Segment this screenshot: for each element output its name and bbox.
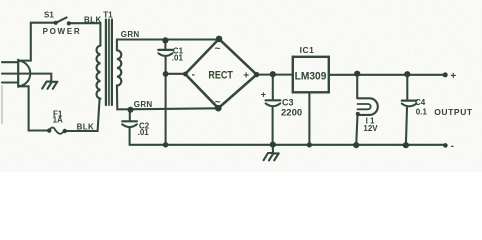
chassis ground at C3 node: [264, 145, 279, 161]
output - terminal dot: [443, 143, 448, 148]
wire IC1 ground pin: [308, 93, 310, 145]
svg-text:OUTPUT: OUTPUT: [434, 107, 473, 117]
svg-text:1A: 1A: [53, 116, 63, 125]
junction lamp top: [354, 71, 360, 77]
wire plug-bottom to fuse: [19, 86, 48, 130]
junction C3 top: [270, 71, 276, 77]
svg-text:T1: T1: [103, 11, 113, 20]
transformer T1 secondary winding: [117, 50, 121, 85]
svg-text:BLK: BLK: [77, 123, 95, 132]
junction bridge bottom corner: [215, 105, 222, 112]
svg-text:-: -: [451, 141, 454, 152]
svg-text:0.1: 0.1: [416, 107, 428, 116]
capacitor C3 leads: [272, 74, 274, 144]
transformer T1 core: [105, 20, 107, 106]
junction lamp ground: [353, 142, 359, 148]
lamp I1 bulb shell: [358, 98, 378, 115]
svg-text:C4: C4: [415, 98, 426, 107]
paper noise: [0, 0, 1, 1]
wire plug middle prong to chassis ground: [2, 74, 51, 82]
output + terminal dot: [443, 72, 448, 77]
wire bridge + output to IC1: [257, 74, 293, 76]
wire plug-top to switch: [19, 23, 55, 61]
svg-text:S1: S1: [44, 11, 54, 20]
wire IC1 output to output terminal: [329, 74, 445, 76]
svg-text:12V: 12V: [363, 124, 378, 133]
junction C1 bottom node: [163, 71, 169, 77]
svg-text:-: -: [192, 70, 195, 81]
lamp shell joint blob: [356, 112, 360, 116]
junction bridge left corner: [183, 72, 188, 77]
junction IC1 ground: [307, 142, 312, 147]
fuse F1 body: [49, 128, 64, 134]
capacitor C4 leads: [406, 74, 407, 145]
capacitor C2 plates: [122, 120, 137, 122]
wire fuse to transformer primary bottom: [66, 99, 99, 131]
lamp I1 lead from rail: [356, 74, 358, 99]
capacitor C1 plates: [158, 49, 172, 51]
junction bridge top corner: [216, 36, 223, 43]
svg-text:BLK: BLK: [84, 15, 102, 24]
bridge rectifier RECT diamond: [185, 39, 256, 108]
svg-text:~: ~: [215, 97, 221, 108]
wire C1 node down to ground rail: [165, 74, 167, 145]
capacitor C3 plates: [266, 99, 281, 101]
junction C3 ground: [270, 142, 276, 148]
AC plug P1: [17, 60, 19, 87]
svg-text:.01: .01: [138, 128, 150, 137]
fuse F1 terminal dots: [47, 128, 51, 132]
transformer T1 primary winding: [97, 46, 101, 99]
capacitor C1 leads: [164, 40, 166, 74]
wire secondary top to bridge (top rail): [117, 39, 219, 50]
capacitor C4 plates: [402, 99, 417, 101]
lamp I1 filament: [358, 104, 371, 109]
left edge scan artifact: [1, 85, 3, 124]
lamp I1 lead to ground rail: [356, 115, 357, 145]
wire secondary bottom to bridge bottom (GRN rail): [117, 86, 218, 110]
switch S1 blade: [56, 17, 67, 23]
svg-text:+: +: [261, 90, 266, 100]
junction C4 ground: [403, 142, 409, 148]
svg-text:+: +: [450, 71, 456, 82]
chassis ground near plug: [42, 82, 57, 89]
junction C2 / GRN rail: [128, 107, 134, 113]
wire switch to transformer primary top: [70, 23, 100, 45]
svg-text:C3: C3: [282, 98, 294, 108]
svg-text:~: ~: [215, 44, 221, 55]
junction C1 top rail: [162, 37, 168, 43]
ground rail (bottom): [130, 144, 446, 146]
junction C4 top: [404, 71, 410, 77]
svg-text:.01: .01: [172, 54, 184, 63]
junction bridge right corner: [254, 72, 259, 77]
svg-text:GRN: GRN: [134, 100, 153, 109]
switch S1 contact dots: [54, 21, 58, 25]
svg-text:2200: 2200: [281, 108, 302, 119]
svg-text:IC1: IC1: [300, 45, 315, 55]
junction C1 ground: [163, 142, 168, 147]
svg-text:GRN: GRN: [121, 30, 140, 39]
svg-text:LM309: LM309: [295, 71, 327, 83]
svg-text:+: +: [243, 70, 249, 81]
capacitor C2 leads: [129, 110, 131, 145]
svg-text:RECT: RECT: [208, 70, 233, 82]
wire C1 node to bridge left corner: [166, 73, 186, 75]
svg-text:POWER: POWER: [43, 27, 82, 36]
IC1 box: [293, 57, 329, 93]
